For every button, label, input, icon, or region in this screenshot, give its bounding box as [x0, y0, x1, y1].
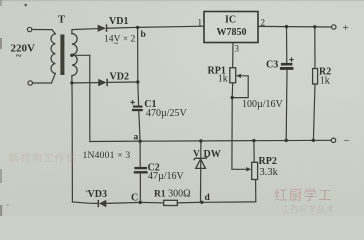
RP1 wiper junction dot — [231, 96, 234, 99]
wire: R1 to node d — [177, 201, 202, 204]
node C dot — [139, 201, 142, 204]
capacitor C2 plates — [134, 167, 148, 174]
wire: RP2 top to bus — [253, 141, 255, 163]
wire: center tap down — [89, 55, 91, 141]
wire: node d to RP2 riser — [202, 201, 256, 203]
wire: VD2 cathode to b-line — [108, 81, 138, 83]
wire: C2 down to node C — [139, 174, 141, 203]
output rail dot at R2 — [313, 25, 316, 28]
resistor R1 body — [164, 200, 178, 205]
wire: center tap to node a — [90, 140, 140, 142]
wire: RP1 wiper loop — [232, 76, 248, 98]
transformer T secondary winding — [72, 34, 77, 76]
bus dot at RP2 — [252, 139, 255, 142]
wire: RP2 bottom to bottom rail — [255, 180, 257, 202]
node d dot — [200, 201, 203, 204]
secondary bottom junction dot — [70, 81, 73, 84]
wire: RP1 junction down to RP2 wiper (crosses bus) — [232, 98, 247, 170]
capacitor C3 plus mark — [289, 57, 293, 61]
capacitor C3 plates — [280, 63, 294, 70]
wire: node C to R1 — [140, 201, 163, 204]
wire: secondary bottom to junction — [71, 76, 73, 83]
wire: R2 branch down — [314, 27, 316, 69]
wire: VD2 junction down to C1 — [137, 82, 140, 106]
capacitor C1 plates — [132, 106, 143, 112]
wire: secondary center tap right — [72, 54, 90, 56]
bus dot at C3 — [285, 139, 288, 142]
wire: IC pin2 to plus terminal — [258, 25, 331, 28]
wire: node b to IC pin 1 — [138, 26, 204, 27]
VD2 output junction dot — [136, 80, 139, 83]
capacitor C1 plus mark — [130, 100, 134, 104]
bus dot at DW — [199, 139, 202, 142]
wire: bottom terminal to primary — [33, 73, 56, 83]
potentiometer RP2 body — [252, 162, 258, 179]
wire: VD1 cathode to node b — [107, 26, 137, 29]
bus dot at R2 — [312, 139, 315, 142]
wire: C1 to node a — [139, 111, 140, 141]
diode VD2 — [98, 79, 107, 87]
input terminal top-left — [27, 27, 31, 31]
wire: C3 branch down — [286, 27, 288, 63]
node a dot — [138, 140, 141, 143]
wire: left branch down to VD3 — [71, 83, 74, 202]
zener diode DW — [194, 156, 208, 168]
output rail dot at C3 — [285, 25, 288, 28]
wire: DW branch — [200, 141, 202, 202]
ground bus: node a to minus terminal — [140, 139, 331, 142]
potentiometer RP2 wiper arrow — [246, 167, 251, 171]
potentiometer RP1 body — [230, 68, 236, 83]
diode VD1 — [98, 24, 107, 32]
transformer T primary winding — [51, 34, 55, 74]
wire: node a down to C2 — [139, 141, 141, 167]
speck before VD3 — [86, 190, 88, 192]
wire: junction to VD2 — [72, 82, 98, 84]
resistor R2 body — [313, 69, 318, 85]
wire: top terminal to primary — [32, 30, 56, 34]
transformer T core — [60, 35, 64, 76]
node b dot — [136, 26, 139, 29]
input terminal bottom-left — [28, 81, 32, 85]
wire: node b down to VD2 junction — [137, 27, 139, 82]
wire: RP1 bottom to junction — [231, 83, 234, 98]
output terminal plus — [332, 25, 336, 29]
center tap dot — [70, 54, 73, 57]
output terminal minus — [331, 138, 335, 142]
diode VD3 (pointing left) — [98, 200, 106, 207]
wire: VD3 to node C — [72, 202, 98, 203]
stray dot top left — [24, 4, 27, 7]
wire: secondary top to VD1 — [72, 29, 98, 34]
wire: IC pin3 down to RP1 — [232, 43, 234, 68]
potentiometer RP1 wiper arrow — [236, 74, 241, 78]
IC U1 W7850 box — [204, 12, 258, 43]
